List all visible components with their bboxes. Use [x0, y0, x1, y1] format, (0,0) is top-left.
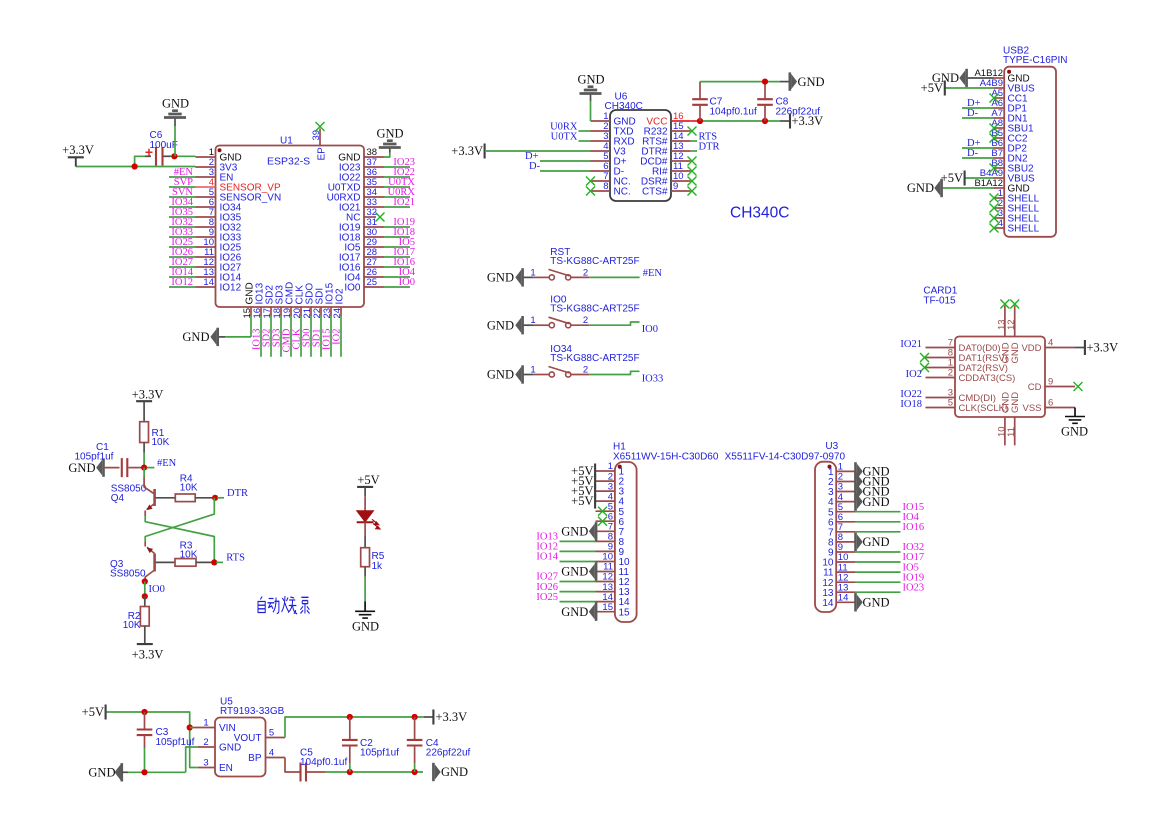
svg-text:8: 8	[603, 181, 608, 192]
svg-text:GND: GND	[487, 368, 514, 382]
ground GND at switch IO34	[515, 367, 521, 383]
H1 pin 2	[596, 480, 615, 482]
svg-text:GND: GND	[1010, 392, 1021, 413]
IC U6 CH340C body	[610, 110, 671, 201]
svg-text:D-: D-	[967, 148, 979, 159]
U1 pin 33 IO21	[364, 206, 384, 208]
wire R5 to GND	[364, 567, 366, 577]
svg-text:9: 9	[1048, 377, 1053, 388]
capacitor C8 226pf22uf	[764, 82, 766, 100]
svg-text:IO0: IO0	[399, 277, 415, 288]
U3 pin 4	[836, 501, 855, 503]
IC U5 RT9193-33GB body	[215, 718, 266, 777]
svg-text:10K: 10K	[152, 437, 170, 448]
wire R3 to RTS node	[196, 561, 214, 563]
svg-text:10K: 10K	[180, 550, 198, 561]
svg-text:9: 9	[673, 181, 678, 192]
svg-text:IO2: IO2	[332, 329, 343, 345]
wire net SD2 from U1 pin 17	[270, 316, 272, 357]
wire U1 pin 38 to GND	[384, 153, 390, 158]
no-connect X on H1 pin 5	[598, 507, 607, 516]
wire R1 to node #EN	[143, 443, 145, 453]
svg-text:GND: GND	[219, 743, 241, 754]
wire net IO0 from U1 pin 25	[384, 286, 410, 288]
wire net IO14 to U1 pin 13	[169, 276, 196, 278]
svg-text:GND: GND	[863, 495, 890, 509]
wire net IO18 from U1 pin 30	[384, 236, 410, 238]
U5 pin 4 BP	[266, 757, 286, 759]
wire net #EN label	[147, 467, 155, 469]
wire net IO21 from U1 pin 33	[384, 206, 410, 208]
svg-text:+5V: +5V	[921, 81, 943, 95]
svg-text:5: 5	[269, 728, 274, 739]
svg-text:GND: GND	[863, 596, 890, 610]
node IO0 junctions and wire	[142, 578, 148, 584]
USB2 pin B1A12 GND	[994, 187, 1005, 189]
capacitor C2 105pf1uf	[349, 717, 351, 740]
wire net IO5 from U3 pin 11	[855, 571, 901, 573]
wire net IO22 from U1 pin 36	[384, 176, 410, 178]
svg-text:14: 14	[822, 598, 834, 609]
LED	[364, 496, 366, 511]
H1 pin 15	[596, 611, 615, 613]
svg-text:CTS#: CTS#	[642, 187, 668, 198]
H1 pin 9	[596, 550, 615, 552]
wire VCC net U6 pin 16 to C7 C8 +3.3V	[691, 120, 700, 122]
U3 pin 13	[836, 591, 855, 593]
label auto-program chinese text	[258, 596, 310, 614]
wire BP to C5	[285, 758, 300, 773]
no-connect X on U6 pins 7 8	[586, 177, 595, 186]
wire +3.3V rail to C6 and U1 pin 2	[76, 166, 196, 168]
U3 pin 1	[836, 470, 855, 472]
wire net IO15 from U3 pin 5	[855, 511, 901, 513]
capacitor C3 105pf1uf	[144, 712, 146, 730]
node C4 top junction	[412, 714, 418, 720]
svg-text:2: 2	[203, 737, 208, 748]
U1 pin 24 IO2	[340, 307, 342, 316]
CARD1 pin 11 GND bottom	[1014, 417, 1016, 445]
ground GND at C1	[96, 460, 102, 476]
svg-text:2: 2	[583, 315, 588, 326]
svg-text:Q4: Q4	[111, 493, 125, 504]
U1 pin 34 U0RXD	[364, 196, 384, 198]
wire net RTS from U6 pin 14	[691, 140, 697, 142]
svg-text:IO23: IO23	[903, 582, 925, 593]
power +3.3V flag below R2	[144, 626, 146, 644]
wire net IO15 from U1 pin 23	[330, 316, 332, 357]
node C3 top junction	[141, 709, 147, 715]
node C6 GND junction	[171, 153, 177, 159]
svg-text:+5V: +5V	[82, 705, 104, 719]
H1 pin 6	[596, 520, 615, 522]
ground GND flag at U3 pin 1	[857, 464, 863, 480]
capacitor C5 104pf0.1uf	[301, 763, 307, 782]
svg-text:14: 14	[838, 593, 849, 604]
wire net IO35 to U1 pin 7	[169, 216, 196, 218]
wire net D- to USB2 pin A7	[962, 117, 994, 119]
U3 pin 11	[836, 571, 855, 573]
svg-text:+3.3V: +3.3V	[436, 710, 468, 724]
U1 pin 18 SD3	[280, 307, 282, 316]
ground GND flag at U3 pin 8	[857, 534, 863, 550]
svg-text:IO21: IO21	[393, 197, 415, 208]
wire net IO12 to U1 pin 14	[169, 286, 196, 288]
wire net SD3 from U1 pin 18	[280, 316, 282, 357]
node VIN junction	[187, 724, 193, 730]
wire Q4 emitter to RTS column	[145, 516, 214, 562]
ground GND flag at H1 pin 15	[589, 604, 595, 620]
wire net IO19 from U1 pin 31	[384, 226, 410, 228]
svg-text:D-: D-	[967, 108, 979, 119]
resistor R1 10K	[140, 422, 149, 443]
H1 pin 10	[596, 561, 615, 563]
power +5V flag at USB2 pin A4B9	[946, 87, 994, 89]
no-connect X on U1 pin 32	[376, 213, 385, 222]
power +5V flag at USB2 pin B4A9	[966, 177, 994, 179]
power +3.3V flag above R1	[136, 400, 152, 402]
svg-text:IO12: IO12	[171, 277, 193, 288]
svg-text:EP: EP	[316, 147, 327, 161]
USB2 pin B5 CC2	[994, 137, 1005, 139]
USB2 pin 3 SHELL	[994, 217, 1005, 219]
wire net IO16 from U1 pin 27	[384, 266, 410, 268]
svg-text:+5V: +5V	[571, 494, 593, 508]
svg-text:1: 1	[530, 267, 535, 278]
U3 pin 10	[836, 561, 855, 563]
USB2 pin B7 DN2	[994, 157, 1005, 159]
svg-text:CDDAT3(CS): CDDAT3(CS)	[959, 373, 1016, 384]
U6 pin 7 NC.	[591, 180, 611, 182]
svg-text:+3.3V: +3.3V	[132, 388, 164, 402]
svg-text:+3.3V: +3.3V	[1087, 340, 1119, 354]
svg-text:GND: GND	[561, 565, 588, 579]
U1 pin 31 IO19	[364, 226, 384, 228]
svg-text:U0TX: U0TX	[551, 131, 578, 142]
svg-text:X6511WV-15H-C30D60: X6511WV-15H-C30D60	[613, 451, 719, 462]
USB2 pin A5 CC1	[994, 97, 1005, 99]
CARD1 pin 3 CMD(DI)	[926, 397, 956, 399]
ground GND flag right of C4	[435, 764, 441, 780]
wire net U0TX to U6 pin 3	[579, 140, 591, 142]
U3 pin 6	[836, 521, 855, 523]
U6 pin 11 RI#	[671, 170, 691, 172]
wire net IO17 from U1 pin 28	[384, 256, 410, 258]
no-connect X on USB2 pin A5	[990, 94, 999, 103]
svg-text:GND: GND	[182, 330, 209, 344]
CARD1 pin 13 GND top	[1004, 306, 1006, 337]
USB2 pin 2 SHELL	[994, 207, 1005, 209]
svg-text:GND: GND	[863, 535, 890, 549]
wire net CLK from U1 pin 20	[300, 316, 302, 357]
U6 pin 2 TXD	[591, 130, 611, 132]
U1 pin 11 IO26	[196, 256, 216, 258]
power +5V flag at H1 pin 3	[594, 484, 596, 499]
svg-text:X5511FV-14-C30D97-0970: X5511FV-14-C30D97-0970	[725, 451, 846, 462]
svg-text:IO2: IO2	[906, 369, 922, 380]
svg-text:14: 14	[203, 277, 214, 288]
svg-text:IO0: IO0	[344, 283, 361, 294]
U5 pin 2 GND	[198, 746, 215, 748]
wire net IO26 to U1 pin 11	[169, 256, 196, 258]
svg-text:105pf1uf: 105pf1uf	[156, 737, 195, 748]
U6 pin 6 D-	[591, 170, 611, 172]
CARD1 pin 4 VDD	[1045, 347, 1075, 349]
H1 pin 8	[596, 540, 615, 542]
ground GND above C6	[164, 111, 186, 118]
svg-text:GND: GND	[352, 620, 379, 634]
svg-text:ESP32-S: ESP32-S	[267, 156, 310, 168]
connector U3 X5511FV-14-C30D97-0970 body	[815, 462, 836, 612]
svg-text:IO25: IO25	[536, 592, 558, 603]
svg-text:SS8050: SS8050	[110, 568, 146, 579]
U1 pin 27 IO16	[364, 266, 384, 268]
wire net D- to U6 pin 6	[540, 170, 591, 172]
wire net D+ to U6 pin 5	[540, 160, 591, 162]
ground GND flag left of C3	[115, 765, 121, 781]
svg-text:1: 1	[203, 718, 208, 729]
ground GND flag at U3 pin 3	[857, 484, 863, 500]
svg-text:IO0: IO0	[642, 324, 658, 335]
svg-text:VDD: VDD	[1021, 343, 1041, 354]
no-connect X on USB2 pins A8 B5	[990, 124, 999, 133]
svg-text:RTS: RTS	[226, 553, 245, 564]
svg-text:2: 2	[583, 365, 588, 376]
H1 pin 3	[596, 490, 615, 492]
power +5V flag above LED	[357, 486, 373, 488]
svg-text:VOUT: VOUT	[234, 733, 262, 744]
svg-text:226pf22uf: 226pf22uf	[426, 748, 471, 759]
ground GND flag at USB2 pin A1B12	[966, 77, 994, 79]
svg-text:BP: BP	[248, 753, 262, 764]
wire net D+ to USB2 pin A6	[962, 107, 994, 109]
svg-text:U1: U1	[280, 136, 293, 147]
wire net IO33 to U1 pin 9	[169, 236, 196, 238]
ground GND at U1 pin 38	[379, 141, 401, 148]
ground GND above U6	[590, 101, 592, 121]
svg-text:4: 4	[269, 748, 274, 759]
U1 pin 35 U0TXD	[364, 186, 384, 188]
wire net DTR from U6 pin 13	[691, 150, 697, 152]
connector USB2 TYPE-C16PIN body	[1004, 67, 1056, 237]
U3 pin 3	[836, 491, 855, 493]
svg-text:TF-015: TF-015	[923, 296, 956, 307]
H1 pin 12	[596, 581, 615, 583]
wire net SD0 from U1 pin 21	[310, 316, 312, 357]
node C6 +3.3V junction	[132, 163, 138, 169]
ground GND flag at U1 bottom	[225, 336, 251, 338]
power +5V flag at H1 pin 1	[594, 464, 596, 479]
ground GND flag at U3 pin 14	[857, 595, 863, 611]
U1 pin 5 SENSOR_VN	[196, 196, 216, 198]
wire net SD1 from U1 pin 22	[320, 316, 322, 357]
U6 pin 15 R232	[671, 130, 691, 132]
svg-text:GND: GND	[577, 73, 604, 87]
U3 pin 5	[836, 511, 855, 513]
CARD1 pin 10 GND bottom	[1004, 417, 1006, 445]
H1 pin 13	[596, 591, 615, 593]
ground GND at switch RST	[515, 270, 521, 286]
U1 pin 32 NC	[364, 216, 376, 218]
power +5V flag at H1 pin 4	[594, 494, 596, 509]
svg-text:IO18: IO18	[900, 399, 922, 410]
wire net IO13 to H1 pin 8	[560, 540, 596, 542]
wire net IO12 to H1 pin 9	[560, 550, 596, 552]
svg-text:1: 1	[530, 365, 535, 376]
U1 pin 28 IO17	[364, 256, 384, 258]
wire net CMD from U1 pin 19	[290, 316, 292, 357]
svg-text:GND: GND	[162, 97, 189, 111]
IC U1 ESP32-S body	[216, 146, 365, 308]
U3 pin 12	[836, 581, 855, 583]
svg-text:+3.3V: +3.3V	[132, 648, 164, 662]
svg-text:5: 5	[948, 398, 953, 409]
resistor R5 1k	[364, 537, 366, 548]
wire net IO25 to H1 pin 14	[560, 601, 596, 603]
wire +5V rail to VIN and EN	[107, 712, 198, 768]
U1 pin 19 CMD	[290, 307, 292, 316]
wire net D- to USB2 pin B7	[962, 157, 994, 159]
wire net U0RX to U6 pin 2	[579, 130, 591, 132]
svg-text:NC.: NC.	[614, 187, 631, 198]
wire net IO16 from U3 pin 7	[855, 531, 901, 533]
CARD1 pin 7 DAT0(D0)	[926, 347, 956, 349]
node DTR junction	[212, 495, 218, 501]
capacitor C4 226pf22uf	[414, 717, 416, 740]
svg-text:GND: GND	[1061, 425, 1088, 439]
U6 pin 14 RTS#	[671, 140, 691, 142]
ground GND flag at H1 pin 7	[589, 524, 595, 540]
H1 pin 4	[596, 500, 615, 502]
node #EN junction	[141, 465, 147, 471]
wire net RTS label	[216, 561, 223, 563]
no-connect X on CARD1 pin 8	[920, 353, 929, 362]
svg-text:105pf1uf: 105pf1uf	[360, 748, 399, 759]
U3 pin 9	[836, 551, 855, 553]
wire net IO4 from U3 pin 6	[855, 521, 901, 523]
svg-text:GND: GND	[68, 461, 95, 475]
no-connect X on USB2 SHELL pins 1-4	[990, 194, 999, 203]
power +5V flag at H1 pin 2	[594, 474, 596, 489]
wire net D+ to USB2 pin B6	[962, 147, 994, 149]
svg-text:CH340C: CH340C	[605, 101, 643, 112]
svg-text:GND: GND	[88, 766, 115, 780]
svg-text:+5V: +5V	[357, 473, 379, 487]
svg-text:10K: 10K	[180, 483, 198, 494]
U3 pin 7	[836, 531, 855, 533]
svg-text:GND: GND	[441, 765, 468, 779]
wire net IO14 to H1 pin 10	[560, 561, 596, 563]
node RTS junction	[211, 559, 217, 565]
svg-text:GND: GND	[1010, 342, 1021, 363]
ground GND flag at U3 pin 4	[857, 494, 863, 510]
wire net DTR label	[217, 497, 224, 499]
U1 pin 38 GND	[364, 156, 384, 158]
U6 pin 12 DCD#	[671, 160, 691, 162]
node C4 bottom junction	[412, 769, 418, 775]
svg-text:VSS: VSS	[1022, 403, 1041, 414]
resistor R4 10K	[175, 494, 195, 502]
resistor R2 10K	[144, 596, 146, 606]
svg-text:IO16: IO16	[903, 522, 925, 533]
U5 pin 5 VOUT	[266, 737, 286, 739]
svg-text:6: 6	[1048, 398, 1053, 409]
svg-text:CD: CD	[1028, 382, 1042, 393]
USB2 pin B6 DP2	[994, 147, 1005, 149]
U1 pin 21 SDO	[310, 307, 312, 316]
svg-text:TYPE-C16PIN: TYPE-C16PIN	[1003, 55, 1067, 66]
wire net IO32 to U1 pin 8	[169, 226, 196, 228]
power +3.3V flag right of C8	[789, 114, 791, 129]
U1 pin 16 IO13	[260, 307, 262, 316]
node C2 top junction	[347, 714, 353, 720]
svg-text:IO21: IO21	[900, 339, 922, 350]
wire net SVP to U1 pin 4	[169, 186, 196, 188]
U1 pin 36 IO22	[364, 176, 384, 178]
svg-text:2: 2	[583, 267, 588, 278]
U1 pin 26 IO4	[364, 276, 384, 278]
capacitor C1 105pf1uf	[103, 467, 120, 469]
U6 pin 4 V3	[591, 150, 611, 152]
svg-text:104pf0.1uf: 104pf0.1uf	[710, 106, 757, 117]
ground GND at switch IO0	[515, 317, 521, 333]
H1 pin 7	[596, 530, 615, 532]
wire net IO33 from switch IO34	[589, 371, 639, 374]
svg-text:12: 12	[1006, 319, 1017, 330]
no-connect X on CARD1 pin 9	[1074, 382, 1083, 391]
wire net IO27 to H1 pin 12	[560, 581, 596, 583]
U1 pin 20 CLK	[300, 307, 302, 316]
wire net U0TX from U1 pin 35	[384, 186, 410, 188]
svg-text:1: 1	[530, 315, 535, 326]
CARD1 pin 5 CLK(SCLK)	[926, 407, 956, 409]
power +5V flag left of U5	[105, 705, 107, 720]
svg-text:IO33: IO33	[642, 374, 664, 385]
svg-text:15: 15	[602, 602, 613, 613]
U6 pin 1 GND	[591, 120, 611, 122]
U1 pin 25 IO0	[364, 286, 384, 288]
U1 pin 29 IO5	[364, 246, 384, 248]
wire net IO32 from U3 pin 9	[855, 551, 901, 553]
U3 pin 8	[836, 541, 855, 543]
svg-text:EN: EN	[219, 763, 233, 774]
svg-text:15: 15	[619, 607, 631, 618]
svg-text:GND: GND	[907, 181, 934, 195]
USB2 pin A1B12 GND	[994, 77, 1005, 79]
node C5 C2 bottom junction	[347, 769, 353, 775]
H1 pin 11	[596, 571, 615, 573]
wire net IO25 to U1 pin 10	[169, 246, 196, 248]
U1 pin 23 IO15	[330, 307, 332, 316]
no-connect X on U1 pin 39 EP	[316, 122, 325, 131]
U5 pin 1 VIN	[194, 727, 216, 729]
power +3.3V flag right of U5	[424, 716, 433, 718]
wire net IO34 to U1 pin 6	[169, 206, 196, 208]
U3 pin 14	[836, 601, 855, 603]
svg-text:+3.3V: +3.3V	[62, 143, 94, 157]
wire R4 to DTR node	[195, 497, 215, 499]
wire net #EN to U1 pin 3	[169, 176, 196, 178]
CARD1 pin 1 DAT2(RSV)	[926, 367, 956, 369]
U5 pin 3 EN	[198, 767, 215, 769]
wire net #EN from switch RST	[589, 276, 639, 278]
U6 pin 8 NC.	[591, 190, 611, 192]
H1 pin 14	[596, 601, 615, 603]
no-connect X on USB2 pin B8	[990, 164, 999, 173]
svg-text:4: 4	[1048, 338, 1053, 349]
node GND C8 top junction	[762, 79, 768, 85]
U6 pin 9 CTS#	[671, 190, 691, 192]
